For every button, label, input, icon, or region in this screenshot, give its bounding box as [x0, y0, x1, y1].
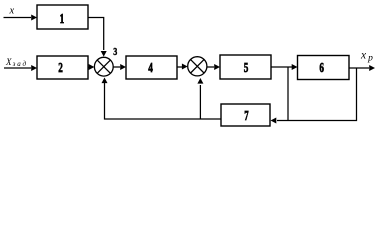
arrowhead output xp — [369, 65, 375, 71]
wire block1 to sum3 (horizontal) — [88, 18, 104, 51]
arrowhead into block 5 — [214, 64, 220, 70]
summing junction 3 — [94, 57, 113, 76]
arrowhead into block 4 — [120, 64, 126, 70]
summing junction (second) — [188, 57, 207, 76]
wire block7 output left — [105, 83, 222, 119]
wire block6 to output — [349, 67, 369, 69]
svg-text:3: 3 — [113, 46, 117, 58]
arrowhead up into sum2 bottom — [197, 78, 203, 84]
wire sum3 to block4 — [113, 66, 120, 68]
arrowhead up into sum3 bottom — [102, 78, 108, 84]
block 7 — [221, 104, 270, 126]
arrowhead into block 6 — [292, 64, 298, 70]
wire sum2 to block5 — [207, 66, 214, 68]
arrowhead into block 1 — [31, 15, 37, 21]
block 2 — [37, 56, 88, 79]
svg-text:X: X — [5, 57, 12, 67]
svg-text:5: 5 — [244, 61, 249, 76]
svg-text:4: 4 — [148, 61, 153, 76]
arrowhead down into sum3 top — [101, 51, 107, 57]
arrowhead into sum3 left — [89, 64, 95, 70]
wire block5 to block6 — [271, 66, 292, 68]
svg-text:6: 6 — [319, 61, 324, 76]
svg-text:1: 1 — [60, 12, 65, 27]
block 6 — [298, 56, 350, 80]
wire tap after block5 down — [287, 67, 289, 121]
wire input x — [4, 17, 32, 19]
wire tap after block6 down and left to block7 — [277, 68, 357, 121]
svg-text:зад: зад — [12, 60, 27, 68]
wire input Xzad — [4, 67, 31, 69]
block 4 — [126, 56, 177, 79]
arrowhead into block 7 (pointing left) — [271, 118, 277, 124]
svg-text:2: 2 — [58, 61, 63, 76]
arrowhead into sum2 left — [182, 64, 188, 70]
svg-text:x: x — [9, 6, 15, 17]
arrowhead into block 2 — [31, 65, 37, 71]
svg-text:7: 7 — [244, 109, 248, 124]
wire branch up into sum2 bottom — [199, 85, 201, 119]
block 5 — [220, 55, 271, 79]
wire block4 to sum2 — [177, 66, 182, 68]
block 1 — [37, 5, 88, 29]
wire block2 to sum3 — [88, 67, 90, 69]
